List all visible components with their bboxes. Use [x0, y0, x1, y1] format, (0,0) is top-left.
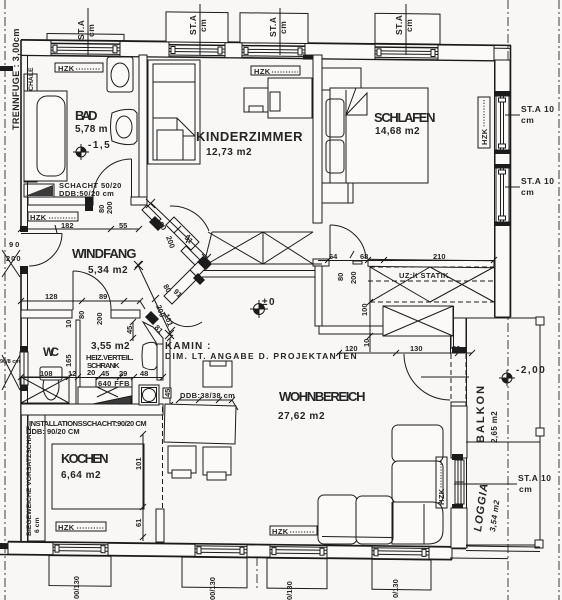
WC door leaf and arc [73, 271, 111, 310]
dining chair 1 [168, 446, 196, 478]
dim line wohnbereich east 120 130 30 [336, 350, 475, 356]
svg-text:HZK: HZK [437, 488, 446, 505]
svg-text:ST.A: ST.A [268, 17, 278, 37]
bottom window BW1 [53, 545, 108, 553]
svg-text:6 cm: 6 cm [34, 518, 41, 534]
BAD floor level cross marker [73, 144, 89, 160]
svg-text:BALKON: BALKON [475, 384, 487, 443]
svg-text:ST.A: ST.A [394, 15, 404, 35]
BAD south wall left part [28, 197, 93, 205]
svg-text:12,73 m2: 12,73 m2 [206, 147, 253, 158]
top window W3 (KINDERZIMMER 2) [242, 46, 305, 57]
property boundary dash-dot line left [4, 0, 6, 600]
svg-text:DIM. LT. ANGABE D. PROJEKTANTE: DIM. LT. ANGABE D. PROJEKTANTEN [165, 351, 357, 361]
svg-text:HZK: HZK [58, 523, 75, 532]
svg-text:6,64 m2: 6,64 m2 [61, 470, 102, 481]
top wall pier 2 [120, 41, 169, 57]
KOCHEN room outline box [52, 444, 144, 509]
SCHLAFEN bed [330, 88, 428, 183]
svg-text:200: 200 [105, 201, 114, 214]
ST.A label window W2 [188, 4, 208, 55]
BAD south wall right part [131, 197, 147, 205]
svg-text:HZK: HZK [254, 67, 271, 76]
WC washbasin on closet wall [142, 342, 157, 369]
kitchen counter with sink [78, 387, 132, 404]
svg-text:UZ:lt STATIK: UZ:lt STATIK [399, 271, 449, 280]
svg-text:HZK: HZK [58, 64, 75, 73]
KINDERZIMMER bed [148, 60, 200, 164]
WINDFANG HZK radiator [28, 212, 78, 222]
kinderzimmer diagonal door leaf (closed) [166, 217, 199, 250]
right outer wall upper (SCHLAFEN) [495, 45, 511, 317]
bottom wall piers [8, 542, 53, 555]
svg-text:0/130: 0/130 [285, 581, 294, 600]
svg-text:-1,5: -1,5 [88, 140, 111, 151]
bottom window BW4 [372, 549, 429, 557]
svg-text:165: 165 [64, 354, 73, 367]
black joint block top left [0, 66, 13, 71]
SCHLAFEN HZK radiator right wall [478, 97, 490, 148]
svg-text:HZK: HZK [272, 527, 289, 536]
dash-dot mark below bottom wall [256, 557, 258, 590]
BAD washbasin [111, 109, 138, 144]
trennfuge X hatch at WC window [2, 355, 20, 390]
svg-text:00/130: 00/130 [208, 577, 217, 600]
KINDERZIMMER chair [244, 88, 268, 112]
WC toilet [40, 367, 62, 400]
svg-text:182: 182 [61, 221, 74, 230]
bottom window BW2 [195, 547, 247, 555]
black jamb diamond bottom [145, 311, 159, 325]
svg-text:101: 101 [134, 457, 143, 470]
balcony door opening dashed [451, 354, 466, 402]
right wall window RW1 [496, 96, 509, 150]
bottom window BW3 [270, 548, 327, 556]
ST.A label window W4 [394, 4, 414, 55]
svg-text:cm: cm [404, 19, 414, 32]
svg-text:ST.A 10: ST.A 10 [518, 473, 551, 483]
property boundary dash-dot line right outer [558, 0, 560, 600]
schacht black box in BAD south wall [85, 197, 93, 211]
svg-text:10: 10 [64, 320, 73, 328]
wohnbereich niche wall vertical [315, 266, 322, 326]
svg-text:64: 64 [329, 252, 338, 261]
top wall pier 4 with dark junction [305, 44, 375, 60]
svg-text:45: 45 [163, 389, 172, 397]
ST.A label window W1 [76, 8, 96, 55]
svg-text:90/8 cm: 90/8 cm [0, 359, 20, 365]
svg-text:12: 12 [68, 369, 76, 378]
lower diagonal wall piece to corridor corner [181, 246, 204, 269]
balcony door arc [404, 354, 450, 400]
bottom wall band [0, 542, 466, 560]
SCHLAFEN wardrobe bottom [322, 183, 353, 203]
trennfuge X hatch at entrance door [2, 250, 20, 277]
left outer wall upper segment [20, 40, 28, 232]
svg-text:45: 45 [101, 369, 109, 378]
svg-text:BAD: BAD [75, 108, 101, 123]
BAD vorsatzschale furring band [24, 74, 37, 182]
schacht hatched wedge symbol [24, 184, 54, 197]
shutter box above window W2 [166, 12, 228, 43]
top window W4 (SCHLAFEN) [375, 47, 438, 58]
svg-text:10: 10 [362, 339, 371, 347]
black jamb diamond at door A [149, 216, 164, 231]
svg-text:61: 61 [134, 519, 143, 527]
svg-text:TRENNFUGE : 3,00cm: TRENNFUGE : 3,00cm [11, 28, 21, 130]
sofa L-shaped [318, 425, 443, 544]
WC installation shaft X-box [21, 377, 69, 403]
svg-text:ST.A 10: ST.A 10 [521, 176, 554, 186]
diagonal dim line kinderzimmer door [146, 199, 211, 263]
windfang dim line 128 89 [18, 298, 145, 309]
sill box above window W1 [47, 34, 124, 42]
svg-text:68: 68 [360, 252, 368, 261]
windfang dim line top 182 55 [18, 225, 142, 233]
SCHLAFEN pillows [326, 99, 344, 137]
black joint block bottom left [0, 543, 8, 549]
svg-text:80: 80 [336, 273, 345, 281]
svg-text:DDB:38/38 cm: DDB:38/38 cm [180, 391, 235, 400]
svg-text:55: 55 [119, 221, 127, 230]
svg-text:cm: cm [86, 24, 96, 37]
dining table [164, 404, 236, 444]
bathtub [24, 91, 67, 181]
svg-text:WOHNBEREICH: WOHNBEREICH [279, 389, 369, 404]
svg-text:BIEGEWEICHE VORSATZSCHALE: BIEGEWEICHE VORSATZSCHALE [26, 425, 33, 536]
svg-text:30: 30 [452, 344, 460, 353]
WC north wall [21, 310, 72, 318]
SCHLAFEN wardrobe top [322, 68, 361, 90]
svg-text:2,65 m2: 2,65 m2 [490, 411, 499, 443]
svg-text:200: 200 [349, 271, 358, 284]
wohnbereich lower diagonal wall piece upper [190, 262, 205, 277]
top wall band [21, 40, 511, 61]
diagonal dim line wohnbereich door [134, 261, 175, 339]
balcony platform outline [466, 318, 540, 545]
svg-text:100: 100 [360, 303, 369, 316]
kinderzimmer diagonal door swing arc [170, 206, 209, 231]
SCHLAFEN door leaf and arc [330, 225, 366, 259]
KINDERZIMMER/SCHLAFEN divider wall [313, 55, 322, 223]
ST.A label window W3 [268, 8, 288, 55]
svg-text:ST.A: ST.A [188, 15, 198, 35]
ST.A 100 label RW1 [505, 104, 554, 125]
svg-text:210: 210 [433, 252, 446, 261]
kitchen-living divider dashed line [162, 407, 164, 509]
wohnbereich diagonal door leaf (closed) [164, 270, 198, 304]
WC south wall / kitchen north [21, 404, 163, 415]
kochen vorsatzschale furring band [28, 415, 45, 541]
svg-text:ST.A 10: ST.A 10 [521, 104, 554, 114]
KOCHEN HZK radiator [56, 522, 106, 532]
SCHLAFEN south wall left of door [313, 259, 329, 266]
svg-text:27,62 m2: 27,62 m2 [278, 411, 326, 422]
wall pier bottom right [451, 508, 467, 548]
closet east wall [157, 338, 163, 380]
top wall pier BAD corner [21, 40, 51, 55]
svg-text:cm: cm [521, 115, 534, 125]
top wall pier 5 [438, 45, 494, 61]
svg-text:KINDERZIMMER: KINDERZIMMER [196, 129, 306, 144]
svg-text:128: 128 [45, 292, 58, 301]
window sill box below BW3 [267, 558, 327, 589]
entrance door 90/200 in left wall [21, 234, 62, 267]
black block above balcony door [452, 347, 466, 353]
wohnbereich diagonal door swing arc [164, 312, 202, 327]
kamin side wall band [319, 326, 384, 334]
dim line 100 vertical [367, 299, 373, 352]
upper diagonal wall piece at bath corner [142, 205, 161, 224]
right wall window RW2 [496, 168, 509, 222]
WOHNBEREICH HZK bottom [270, 526, 317, 536]
wall below corridor beam [202, 264, 322, 277]
svg-text:cm: cm [198, 19, 208, 32]
balcony door sill line [421, 376, 469, 378]
door sill mark schlafen [353, 261, 362, 264]
chimney X-box [383, 306, 453, 336]
schlafen door dim line [318, 257, 497, 263]
svg-text:DDB: 90/20 CM: DDB: 90/20 CM [26, 427, 80, 436]
WOHNBEREICH HZK right wall [436, 457, 447, 508]
svg-text:14,68 m2: 14,68 m2 [375, 126, 421, 137]
wall line chimney to balcony door [453, 306, 455, 352]
svg-text:-2,00: -2,00 [516, 365, 546, 376]
wohnbereich cabinet [203, 361, 232, 387]
svg-text:WINDFANG: WINDFANG [72, 246, 140, 261]
WC closet divider wall [76, 320, 80, 404]
svg-text:48: 48 [140, 369, 148, 378]
svg-text:3,55 m2: 3,55 m2 [91, 341, 131, 352]
svg-text:80: 80 [77, 311, 86, 319]
svg-text:ST.A: ST.A [76, 20, 86, 40]
svg-text:130: 130 [410, 344, 423, 353]
dim 45 closet [130, 319, 136, 341]
black jamb diamond at corridor corner [197, 256, 212, 270]
top window W1 (BAD) [51, 44, 120, 55]
svg-text:HZK: HZK [480, 128, 489, 145]
svg-text:5,34 m2: 5,34 m2 [88, 265, 129, 276]
UZ beam dashed X-box [370, 267, 494, 336]
window sill box below BW2 [182, 557, 247, 588]
svg-text:cm: cm [278, 21, 288, 34]
KINDERZIMMER HZK radiator [251, 66, 300, 76]
svg-text:20: 20 [87, 368, 95, 377]
svg-text:KOCHEN: KOCHEN [61, 451, 112, 466]
svg-text:90: 90 [9, 240, 21, 249]
right window RW3 [455, 460, 464, 504]
window sill box below BW1 [49, 556, 111, 587]
svg-text:200: 200 [95, 312, 104, 325]
top window W2 (KINDERZIMMER) [169, 45, 225, 56]
left wall middle segment (between door and WC window) [20, 266, 28, 352]
left wall lower segment [20, 385, 28, 543]
svg-text:00/130: 00/130 [72, 576, 81, 599]
BAD HZK radiator [55, 63, 103, 73]
SCHLAFEN south wall right of door [368, 259, 494, 268]
shutter box above window W3 [240, 13, 308, 44]
svg-text:HZK: HZK [30, 213, 47, 222]
top wall pier 3 [225, 43, 242, 58]
BAD door leaf and arc [93, 159, 132, 197]
right outer wall lower (WOHNBEREICH) [451, 318, 467, 545]
corridor beam X-box [204, 232, 313, 264]
shutter box above window W4 [375, 13, 440, 44]
svg-text:89: 89 [99, 292, 107, 301]
kitchen wall stub lower [156, 509, 164, 542]
svg-text:29: 29 [119, 369, 127, 378]
KINDERZIMMER desk [268, 78, 312, 118]
right fixed glazing element [451, 406, 467, 458]
kitchen top dim line 108 12 45 29 48 [18, 374, 166, 380]
svg-text:cm: cm [519, 484, 532, 494]
ST.A 100 label RW2 [505, 176, 554, 197]
property boundary dash-dot line through balcony [507, 0, 509, 600]
balcony corner posts [536, 317, 544, 325]
svg-text:cm: cm [521, 187, 534, 197]
dim 45 vertical right of washing machine [167, 335, 173, 408]
ST.A label loggia window [454, 473, 551, 494]
svg-text:108: 108 [40, 369, 53, 378]
loggia slab bottom band [450, 546, 540, 559]
svg-text:WC: WC [43, 345, 60, 359]
kochen dim line vertical 101 61 [140, 431, 146, 541]
svg-text:0/130: 0/130 [391, 579, 400, 598]
diagonal wall closet to kitchen [143, 322, 163, 344]
svg-text:DDB:50/20 cm: DDB:50/20 cm [59, 189, 114, 198]
dining chair 2 [203, 447, 231, 480]
washing machine [139, 385, 159, 405]
WC window in left wall [20, 352, 28, 385]
svg-text:SCHLAFEN: SCHLAFEN [374, 110, 439, 125]
640 FFB label box [96, 378, 132, 388]
window sill box below BW4 [372, 559, 431, 590]
svg-text:5,78 m: 5,78 m [75, 124, 109, 135]
BAD toilet [107, 57, 133, 92]
BAD east wall [139, 55, 147, 197]
wall piece below balcony door [451, 402, 466, 407]
black jamb diamond top [193, 273, 205, 285]
